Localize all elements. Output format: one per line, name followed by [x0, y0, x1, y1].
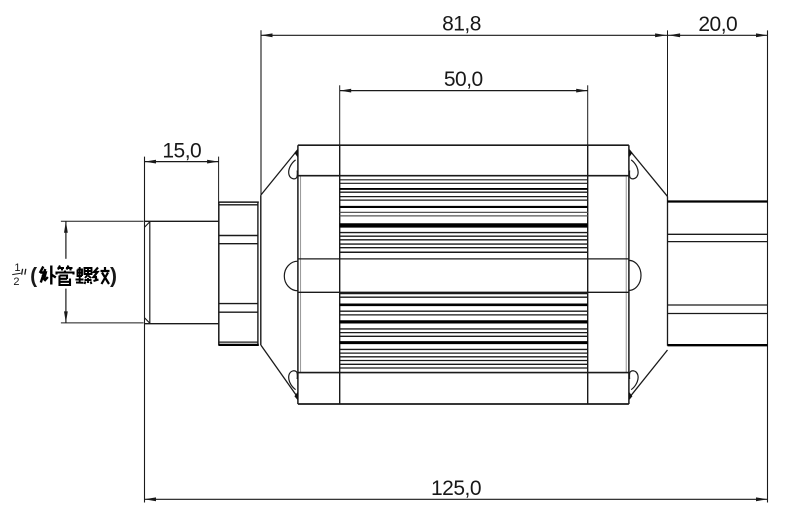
- corner curl top-left: [289, 160, 298, 179]
- svg-text:15,0: 15,0: [162, 139, 201, 162]
- cone bottom-left: [261, 345, 298, 398]
- outlet pipe left edge: [667, 196, 669, 345]
- outlet pipe top edge: [668, 200, 768, 202]
- corner wedge top-right: [629, 149, 633, 158]
- label double prime: [22, 269, 26, 275]
- extension line at x=767.5: [767, 30, 769, 502]
- extension line at x=218.6: [218, 157, 220, 204]
- outlet pipe groove line 2: [668, 241, 768, 243]
- cone bottom-right: [629, 350, 667, 398]
- svg-text:81,8: 81,8: [442, 13, 481, 36]
- svg-text:2: 2: [13, 276, 19, 288]
- housing band line lower-middle: [298, 291, 629, 293]
- nut facet line 2: [219, 243, 258, 245]
- svg-text:1: 1: [14, 262, 20, 274]
- upper fin band: [340, 180, 588, 252]
- housing top edge: [298, 144, 629, 146]
- corner curl bottom-left: [289, 371, 298, 390]
- cone small-end edge: [260, 195, 262, 345]
- extension line at x=144.5: [144, 157, 146, 503]
- fin band right edge: [587, 145, 589, 404]
- nut left edge: [218, 202, 220, 346]
- left mounting bump: [284, 261, 298, 291]
- dimension 50,0: [340, 68, 588, 93]
- cone top-left: [261, 150, 298, 196]
- extension line bottom of pipe OD dim: [61, 322, 144, 324]
- inlet pipe top edge: [145, 220, 219, 222]
- label CJK char wen (thread): [94, 267, 110, 284]
- outlet pipe groove line 1: [668, 233, 768, 235]
- extension line at x=587.7 (fin band right): [587, 85, 589, 145]
- housing band line bottom: [298, 372, 629, 374]
- inlet pipe chamfer face line: [149, 221, 151, 323]
- fin band left edge: [339, 145, 341, 404]
- nut facet line 4: [219, 311, 258, 313]
- label fraction 1/2: [12, 262, 21, 288]
- nut top edge: [219, 201, 259, 203]
- housing inner left cap line: [300, 176, 302, 373]
- outlet pipe groove line 4: [668, 313, 768, 315]
- label CJK char luo (screw): [76, 267, 92, 284]
- housing inner right cap line: [625, 176, 627, 373]
- svg-text:50,0: 50,0: [444, 68, 483, 91]
- housing right edge: [628, 145, 630, 404]
- housing band line top: [298, 175, 629, 177]
- dimension 81,8 top: [261, 13, 768, 38]
- dimension 20,0 top right: [669, 13, 768, 37]
- extension line at x=261: [260, 30, 262, 195]
- right mounting bump: [629, 260, 641, 290]
- svg-text:): ): [110, 264, 117, 287]
- corner wedge bottom-right: [629, 392, 633, 401]
- lower fin band: [340, 294, 588, 369]
- housing bottom edge: [298, 403, 629, 405]
- housing band line upper-middle: [298, 258, 629, 260]
- inlet pipe chamfer diagonal bottom: [145, 318, 151, 324]
- corner wedge top-left: [294, 149, 298, 158]
- nut facet line 3: [219, 303, 258, 305]
- inlet pipe chamfer diagonal top: [145, 221, 151, 227]
- vertical dimension line (pipe OD) with text gap: [64, 221, 68, 323]
- svg-text:125,0: 125,0: [431, 477, 481, 500]
- outlet pipe bottom edge: [668, 344, 768, 346]
- label CJK char wai (outer): [40, 266, 56, 285]
- nut bottom inner line: [219, 341, 258, 343]
- label CJK char guan (pipe): [57, 266, 74, 286]
- dimension 125,0 bottom: [145, 477, 768, 501]
- nut facet line 1: [219, 235, 258, 237]
- nut bottom edge: [219, 344, 259, 346]
- outlet pipe groove line 3: [668, 304, 768, 306]
- corner wedge bottom-left: [294, 392, 298, 401]
- housing left edge: [297, 145, 299, 404]
- corner curl bottom-right: [629, 371, 638, 390]
- dimension 15,0: [145, 139, 219, 163]
- svg-text:20,0: 20,0: [698, 13, 737, 36]
- inlet pipe bottom edge: [145, 323, 219, 325]
- nut top inner line: [219, 204, 258, 206]
- extension line at x=667.5: [667, 30, 669, 196]
- svg-text:(: (: [30, 264, 37, 287]
- extension line at x=339.7 (fin band left): [339, 85, 341, 145]
- extension line top of pipe OD dim: [61, 220, 144, 222]
- cone top-right: [629, 150, 667, 197]
- nut right edge: [257, 202, 259, 346]
- corner curl top-right: [629, 160, 638, 179]
